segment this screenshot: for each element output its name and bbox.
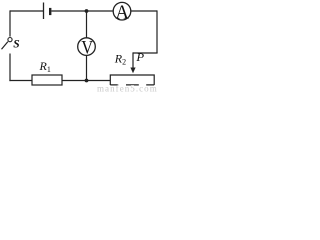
resistor R1 box	[32, 75, 62, 85]
wire R1 to R2	[62, 80, 110, 82]
voltmeter branch wire lower	[86, 55, 88, 80]
wire battery to ammeter	[51, 10, 113, 12]
voltmeter U-V circle	[78, 38, 96, 56]
slider arrowhead P	[130, 68, 135, 74]
svg-text:A: A	[115, 2, 129, 24]
switch S contact circle	[8, 38, 12, 42]
slider arrow shaft P	[132, 52, 134, 68]
svg-text:manfen5.com: manfen5.com	[97, 84, 158, 93]
wire right horizontal to slider	[133, 52, 158, 54]
wire left vertical lower	[9, 54, 11, 82]
junction node bottom (voltmeter tap)	[85, 79, 89, 83]
wire ammeter to right corner	[131, 10, 157, 12]
svg-text:S: S	[13, 38, 19, 50]
svg-text:P: P	[135, 50, 144, 63]
svg-text:V: V	[81, 38, 93, 58]
battery cell B1 short thick plate	[49, 8, 51, 15]
switch S blade	[2, 42, 8, 50]
battery cell B1 long plate	[43, 3, 45, 20]
voltmeter branch wire upper	[86, 11, 88, 38]
junction node top (voltmeter tap)	[85, 9, 89, 13]
wire bottom-left horizontal	[9, 80, 32, 82]
wire left vertical upper	[9, 10, 11, 36]
rheostat R2 box (bottom edge with gaps)	[110, 75, 154, 85]
ammeter U-A circle	[113, 2, 131, 20]
wire right vertical	[156, 10, 158, 53]
wire top-left horizontal	[10, 10, 44, 12]
